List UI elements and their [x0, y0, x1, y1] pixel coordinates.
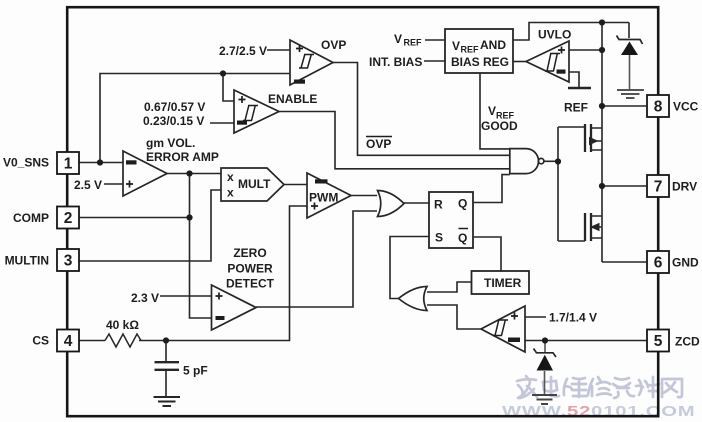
svg-text:R: R — [434, 198, 443, 212]
svg-text:3: 3 — [64, 253, 73, 270]
svg-text:V: V — [394, 32, 402, 46]
svg-text:UVLO: UVLO — [538, 28, 571, 42]
svg-text:DRV: DRV — [672, 180, 697, 194]
svg-text:x: x — [227, 170, 234, 184]
svg-text:V0_SNS: V0_SNS — [3, 156, 49, 170]
svg-text:REF: REF — [564, 101, 588, 115]
svg-text:40 kΩ: 40 kΩ — [106, 318, 139, 332]
svg-text:ZERO: ZERO — [233, 246, 266, 260]
svg-text:8: 8 — [654, 99, 663, 116]
svg-text:OVP: OVP — [366, 137, 391, 151]
svg-text:1.7/1.4 V: 1.7/1.4 V — [549, 311, 597, 325]
svg-text:5 pF: 5 pF — [183, 364, 208, 378]
svg-text:2.3 V: 2.3 V — [131, 291, 159, 305]
svg-text:gm VOL.: gm VOL. — [146, 136, 195, 150]
svg-text:COMP: COMP — [13, 211, 49, 225]
svg-text:DETECT: DETECT — [226, 277, 275, 291]
svg-text:VCC: VCC — [673, 100, 699, 114]
svg-text:1: 1 — [64, 156, 73, 173]
svg-text:CS: CS — [32, 334, 49, 348]
svg-text:2: 2 — [64, 210, 73, 227]
svg-text:Q: Q — [458, 197, 467, 211]
svg-text:ERROR AMP: ERROR AMP — [146, 150, 219, 164]
svg-text:AND: AND — [480, 38, 506, 52]
svg-text:S: S — [435, 231, 443, 245]
svg-text:OVP: OVP — [321, 38, 346, 52]
svg-text:7: 7 — [654, 179, 663, 196]
svg-text:PWM: PWM — [309, 191, 338, 205]
svg-text:2.7/2.5 V: 2.7/2.5 V — [219, 44, 267, 58]
svg-text:Q: Q — [458, 231, 467, 245]
svg-text:ZCD: ZCD — [675, 335, 700, 349]
svg-text:GND: GND — [672, 256, 699, 270]
svg-text:2.5 V: 2.5 V — [74, 178, 102, 192]
svg-text:x: x — [227, 186, 234, 200]
svg-text:5: 5 — [654, 333, 663, 350]
svg-text:POWER: POWER — [227, 262, 273, 276]
svg-text:V: V — [488, 104, 496, 118]
svg-text:0.67/0.57 V: 0.67/0.57 V — [144, 100, 205, 114]
svg-text:MULTIN: MULTIN — [5, 254, 49, 268]
svg-text:INT. BIAS: INT. BIAS — [369, 55, 422, 69]
svg-text:TIMER: TIMER — [484, 276, 522, 290]
svg-text:MULT: MULT — [238, 177, 271, 191]
svg-text:REF: REF — [404, 38, 423, 48]
svg-text:V: V — [452, 39, 460, 53]
svg-text:0.23/0.15 V: 0.23/0.15 V — [143, 114, 204, 128]
svg-text:6: 6 — [654, 255, 663, 272]
svg-text:REF: REF — [461, 45, 480, 55]
svg-text:ENABLE: ENABLE — [268, 92, 317, 106]
svg-text:4: 4 — [64, 333, 73, 350]
svg-text:GOOD: GOOD — [481, 119, 518, 133]
svg-text:BIAS REG: BIAS REG — [451, 55, 509, 69]
